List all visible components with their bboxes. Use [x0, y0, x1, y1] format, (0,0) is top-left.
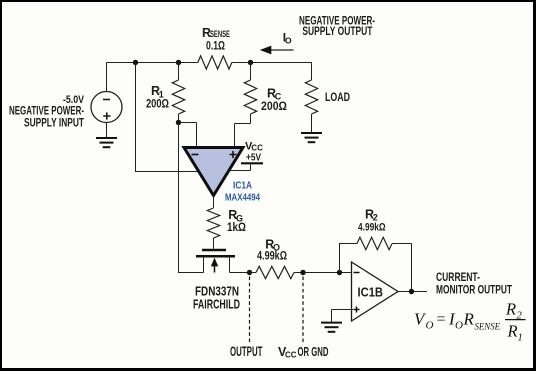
svg-text:O: O: [426, 320, 434, 332]
svg-text:1: 1: [518, 333, 523, 344]
svg-text:IC1A: IC1A: [233, 181, 252, 192]
svg-text:IC1B: IC1B: [358, 285, 384, 300]
resistor RC 200ohm: [244, 63, 256, 124]
svg-text:OR GND: OR GND: [298, 345, 329, 359]
svg-text:200Ω: 200Ω: [261, 99, 287, 113]
arrow IO current direction: [260, 46, 294, 55]
wire node F to IC1B inverting input: [303, 272, 352, 274]
label RC 200ohm: [261, 87, 287, 114]
svg-text:SUPPLY INPUT: SUPPLY INPUT: [24, 116, 84, 130]
resistor R1 200ohm: [172, 63, 184, 123]
svg-text:O: O: [455, 320, 463, 332]
resistor R2 4.99kohm feedback: [340, 237, 412, 291]
ground for IC1B: [321, 323, 342, 332]
ground for V1: [96, 138, 117, 147]
svg-text:4.99kΩ: 4.99kΩ: [257, 249, 287, 263]
svg-text:4.99kΩ: 4.99kΩ: [358, 221, 386, 233]
load resistor: [305, 63, 317, 133]
node D (R1 bottom junction): [176, 120, 181, 125]
label IO: [283, 31, 292, 46]
node B (R1 top junction): [176, 60, 181, 65]
formula VO = IO RSENSE R2/R1: [414, 300, 526, 344]
wire noninverting input IC1A: [235, 124, 251, 147]
wire IC1B output: [398, 291, 427, 293]
svg-text:SUPPLY OUTPUT: SUPPLY OUTPUT: [302, 24, 372, 38]
node E (FET source junction): [247, 270, 252, 275]
wire drain feedback (node D down to FET): [179, 123, 204, 273]
op-amp U2 IC1B triangle: [352, 262, 399, 321]
svg-text:R: R: [505, 300, 516, 319]
node F (RO right junction): [300, 270, 305, 275]
svg-text:FAIRCHILD: FAIRCHILD: [193, 297, 240, 312]
VCC supply bar +5V: [241, 162, 263, 164]
label LOAD: [325, 90, 350, 104]
voltage source V1 -5.0V: [91, 63, 122, 138]
label RG 1kohm: [227, 208, 246, 234]
node G (R2 tap junction): [337, 270, 342, 275]
label IC1A MAX4494: [225, 181, 260, 204]
label RSENSE 0.1ohm: [202, 26, 230, 52]
svg-text:R: R: [463, 310, 475, 329]
label VCC +5V: [245, 141, 263, 164]
label R1 200ohm: [146, 84, 169, 111]
label IC1B: [358, 285, 384, 300]
svg-text:SENSE: SENSE: [475, 323, 501, 333]
label FDN337N FAIRCHILD: [193, 283, 240, 311]
transistor Q1 FDN337N MOSFET: [196, 250, 235, 273]
wire VEE rail (node A to IC1A left edge): [136, 63, 199, 172]
svg-text:CC: CC: [285, 350, 297, 359]
wire source to node E: [230, 272, 250, 274]
svg-text:R: R: [507, 322, 518, 341]
svg-text:OUTPUT: OUTPUT: [230, 344, 263, 359]
wire VCC pin IC1A: [229, 164, 251, 170]
resistor RG 1kohm: [207, 196, 219, 249]
svg-text:=: =: [436, 311, 447, 328]
label OUTPUT: [230, 344, 263, 359]
wire inverting input IC1A: [179, 123, 197, 147]
label RO 4.99kohm: [257, 238, 287, 263]
svg-text:MAX4494: MAX4494: [225, 192, 260, 204]
svg-text:1kΩ: 1kΩ: [227, 220, 246, 234]
svg-text:200Ω: 200Ω: [146, 97, 169, 111]
resistor RSENSE 0.1ohm: [198, 56, 232, 69]
dashed probe line VCC OR GND: [302, 277, 304, 343]
node H (output junction): [409, 289, 414, 294]
label -5.0V NEGATIVE POWER-SUPPLY INPUT: [9, 94, 85, 130]
label CURRENT-MONITOR OUTPUT: [436, 270, 512, 297]
resistor RO 4.99kohm: [250, 266, 304, 278]
wire top rail: [107, 62, 312, 64]
ground for load: [301, 133, 322, 142]
wire IC1B noninverting to ground: [332, 310, 354, 323]
op-amp U1 IC1A triangle: [184, 148, 243, 196]
svg-text:O: O: [285, 36, 292, 46]
svg-text:0.1Ω: 0.1Ω: [206, 38, 225, 52]
svg-text:+5V: +5V: [246, 153, 261, 164]
svg-text:MONITOR OUTPUT: MONITOR OUTPUT: [436, 283, 512, 297]
label VCC OR GND: [278, 345, 329, 360]
label NEGATIVE POWER-SUPPLY OUTPUT: [299, 13, 375, 38]
label R2 4.99kohm: [358, 207, 386, 233]
node A (top-left junction): [133, 60, 138, 65]
node C (RSENSE right junction): [248, 60, 253, 65]
svg-text:LOAD: LOAD: [325, 90, 350, 104]
svg-text:CC: CC: [251, 144, 263, 153]
dashed probe line OUTPUT: [249, 277, 251, 343]
